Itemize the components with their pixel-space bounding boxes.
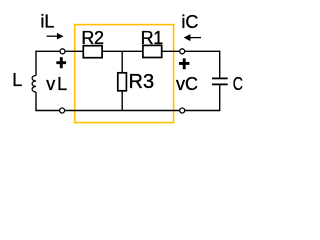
node top-right xyxy=(180,49,185,54)
current arrow iC xyxy=(184,34,201,41)
resistor R1 xyxy=(143,45,162,57)
current arrow iL xyxy=(47,33,64,40)
svg-text:C: C xyxy=(233,74,243,94)
wire R3 branch lower xyxy=(121,91,123,111)
svg-text:vL: vL xyxy=(46,74,67,94)
svg-text:L: L xyxy=(12,70,22,90)
capacitor C plate bottom xyxy=(212,83,228,85)
inductor L coil xyxy=(32,76,36,93)
svg-text:vC: vC xyxy=(176,74,198,94)
resistor R3 xyxy=(118,73,127,91)
wire R3 branch upper xyxy=(121,51,123,73)
svg-text:iL: iL xyxy=(40,12,54,32)
svg-text:iC: iC xyxy=(181,12,198,32)
svg-text:R1: R1 xyxy=(141,28,164,48)
svg-text:R2: R2 xyxy=(81,28,104,48)
node bottom-right xyxy=(180,108,185,113)
wire top xyxy=(36,50,220,52)
wire left (inductor branch lower) xyxy=(35,92,37,111)
wire right (capacitor branch lower) xyxy=(219,85,221,111)
resistor R2 xyxy=(83,46,102,58)
wire left (inductor branch upper) xyxy=(35,51,37,76)
wire bottom xyxy=(36,110,220,112)
svg-text:R3: R3 xyxy=(129,71,155,93)
plus sign (vL) xyxy=(56,57,66,68)
capacitor C plate top xyxy=(212,77,228,79)
node bottom-left xyxy=(60,108,65,113)
plus sign (vC) xyxy=(179,58,189,69)
highlight box (orange) around resistor network xyxy=(75,25,174,123)
node top-left xyxy=(60,49,65,54)
wire right (capacitor branch upper) xyxy=(219,51,221,78)
